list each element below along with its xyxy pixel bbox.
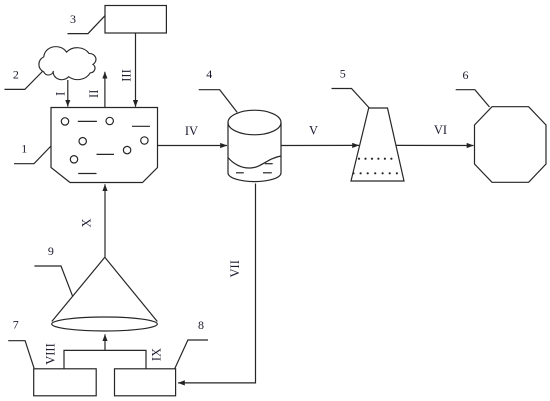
- dash d: [78, 173, 96, 175]
- svg-text:6: 6: [463, 68, 469, 82]
- label 4 leader: [199, 90, 238, 113]
- label 7 leader: [8, 341, 34, 369]
- liquid wave: [228, 156, 281, 168]
- label 6 leader: [456, 90, 490, 107]
- cyclone 9 base: [52, 317, 158, 331]
- svg-text:2: 2: [13, 68, 19, 82]
- box 8: [115, 369, 176, 396]
- box 7: [34, 369, 96, 396]
- svg-text:5: 5: [340, 67, 346, 81]
- svg-text:VII: VII: [228, 260, 242, 277]
- svg-text:VIII: VIII: [43, 343, 57, 365]
- svg-text:1: 1: [21, 142, 27, 156]
- label 3 leader: [68, 16, 106, 34]
- manifold: [64, 350, 146, 368]
- box 3: [105, 6, 166, 34]
- label 2 leader: [5, 72, 43, 90]
- reactor 1: [51, 108, 158, 183]
- manifold stub arrow: [104, 334, 106, 350]
- label 9 leader: [34, 266, 72, 297]
- pipe I: [67, 80, 69, 107]
- svg-text:I: I: [54, 92, 68, 96]
- svg-text:7: 7: [13, 318, 19, 332]
- svg-text:X: X: [80, 218, 94, 227]
- screen 5: [351, 108, 404, 181]
- label 8 leader: [175, 340, 208, 369]
- pipe IV: [158, 145, 228, 147]
- tank 4 top: [228, 110, 281, 135]
- sludge dash c: [263, 172, 272, 174]
- tank 6 octagon: [475, 107, 547, 183]
- svg-text:9: 9: [48, 244, 54, 258]
- cyclone 9 left side: [52, 257, 105, 321]
- svg-text:3: 3: [70, 12, 76, 26]
- sludge dash b: [236, 172, 244, 174]
- dash a: [78, 120, 97, 122]
- dash b: [132, 125, 150, 127]
- bubble f: [70, 156, 77, 163]
- dots row 2: [352, 172, 398, 174]
- bubble b: [106, 117, 113, 124]
- svg-text:II: II: [87, 90, 101, 98]
- bubble a: [61, 118, 68, 125]
- cyclone 9 right side: [105, 257, 158, 321]
- cloud 2: [39, 47, 96, 80]
- svg-text:4: 4: [206, 67, 212, 81]
- pipe X: [104, 184, 106, 257]
- tank 4 body: [228, 123, 281, 182]
- svg-text:V: V: [309, 124, 318, 138]
- sludge dash a: [265, 163, 273, 165]
- bubble e: [123, 146, 130, 153]
- pipe II: [104, 72, 106, 108]
- pipe VI: [396, 144, 474, 146]
- svg-text:IV: IV: [185, 124, 198, 138]
- pipe III: [135, 33, 137, 107]
- pipe VII: [178, 184, 256, 383]
- svg-text:8: 8: [198, 318, 204, 332]
- dots row 1: [358, 158, 393, 160]
- dash c: [97, 153, 115, 155]
- pipe V: [281, 144, 359, 146]
- svg-text:IX: IX: [150, 348, 164, 361]
- label 5 leader: [332, 89, 370, 109]
- label 1 leader: [14, 146, 51, 164]
- bubble d: [141, 137, 148, 144]
- svg-text:III: III: [120, 69, 134, 82]
- svg-text:VI: VI: [434, 123, 447, 137]
- bubble c: [79, 138, 86, 145]
